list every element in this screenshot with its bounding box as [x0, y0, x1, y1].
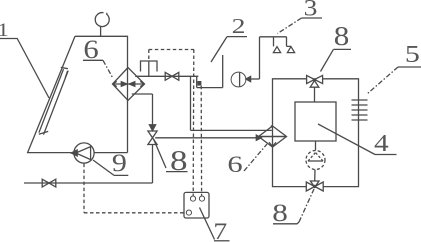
wire drop to valve V2 [152, 94, 154, 125]
component tap 2 [287, 37, 295, 53]
svg-text:8: 8 [334, 22, 350, 52]
valve V1 on supply pipe [165, 72, 179, 80]
component inner box (element 4) [295, 102, 336, 141]
wire dashed control line top (to controller) [149, 49, 194, 51]
component solenoid actuator bracket [141, 61, 158, 76]
svg-text:4: 4 [374, 129, 389, 156]
wire return pipe to right HX with arrowhead [155, 137, 256, 139]
component controller box [184, 192, 209, 218]
wire vent pipe riser [222, 55, 224, 88]
svg-text:8: 8 [272, 200, 288, 227]
node terminal a [190, 196, 195, 201]
node terminal c [186, 210, 191, 215]
component tap 1 [273, 37, 280, 53]
wire branch from HX1 bottom-right [132, 93, 153, 95]
valve V2 (vertical) [148, 131, 157, 145]
heat-exchanger HX2 diamond on tank2 left edge [259, 126, 287, 147]
svg-text:9: 9 [112, 148, 127, 176]
wire dashed control line A down to controller [192, 50, 195, 196]
wire short drop to junction [196, 76, 198, 87]
node flow arrow down inside HX2 [269, 142, 276, 146]
wire cold feed bottom pipe [24, 182, 153, 184]
valve V3 on cold feed [42, 179, 56, 187]
wire pump to bottom valve [314, 170, 316, 181]
svg-text:5: 5 [405, 41, 420, 68]
wire HX1 to riser (hot supply pipe) [135, 75, 198, 77]
component collector element (tilted absorber rod) [39, 67, 68, 134]
wire below valve V2 [152, 145, 154, 184]
pump P1 circle on tank bottom [74, 143, 94, 163]
pump P2 dashed circle with triangle [306, 151, 325, 170]
wire riser down-leg [190, 76, 192, 130]
wire dashed control line B down to controller [200, 86, 202, 196]
heat-exchanger HX1 diamond on tank right edge [113, 68, 145, 101]
wire sensor to taps riser with arrowhead [246, 78, 260, 80]
wire valve to inner box [314, 87, 316, 102]
svg-text:6: 6 [227, 151, 242, 177]
node tank2 right box [273, 79, 359, 187]
valve three-way bottom V5 [306, 182, 314, 191]
wire dashed control pump to controller [84, 164, 186, 213]
node air-vent circle on tank top [95, 13, 109, 27]
node terminal b [199, 196, 204, 201]
node flow arrow down [149, 125, 155, 131]
component heater hatch (element 5) [352, 100, 368, 120]
wire taps header pipe [260, 36, 287, 38]
node junction sensor tap (filled square) [197, 81, 201, 86]
wire inner box to pump [315, 141, 317, 150]
svg-text:2: 2 [232, 15, 246, 38]
wire vent pipe horizontal [197, 87, 223, 89]
svg-text:7: 7 [213, 218, 227, 242]
wire dashed control drop to solenoid [148, 50, 150, 61]
wire horizontal run to right heat exchanger [191, 129, 272, 131]
wire stem vent to tank [100, 26, 102, 36]
sensor flow-meter circle [231, 72, 246, 87]
node tank T1 trapezoid (solar collector tank) [28, 36, 128, 152]
valve three-way top V4 [307, 75, 315, 83]
svg-text:1: 1 [0, 19, 9, 41]
